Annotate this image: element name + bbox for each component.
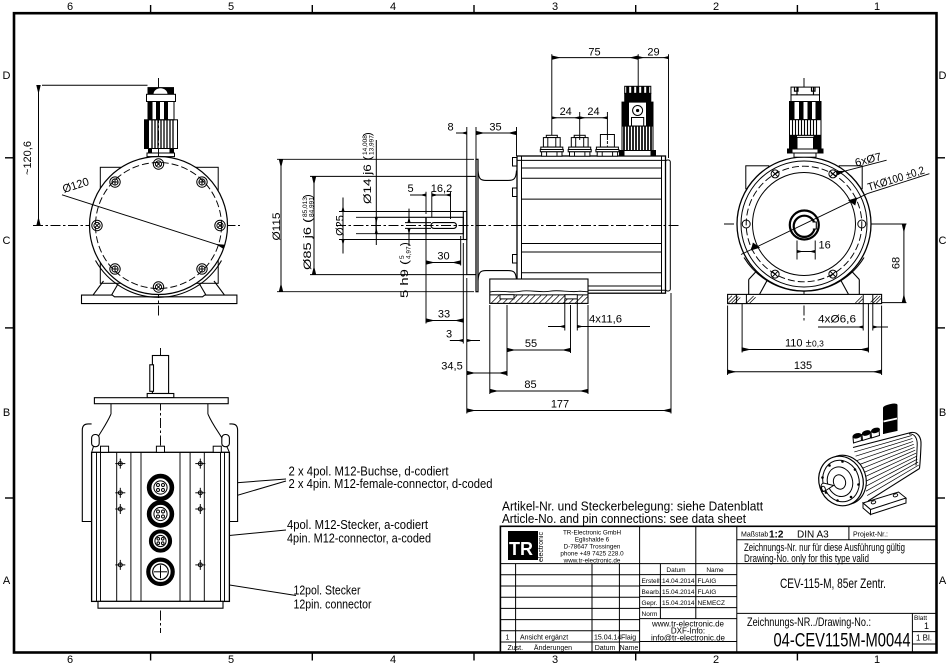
feet plates [82, 424, 237, 522]
svg-text:8: 8 [447, 122, 453, 134]
flange discs [815, 449, 872, 510]
svg-text:D-78647 Trossingen: D-78647 Trossingen [564, 544, 621, 551]
keyway on shaft [813, 222, 817, 229]
svg-text:~120,6: ~120,6 [22, 141, 34, 175]
bottom heavy rim arc [96, 261, 222, 298]
feet [82, 281, 237, 304]
svg-text:1: 1 [506, 635, 510, 642]
svg-text:4x11,6: 4x11,6 [589, 314, 622, 326]
svg-text:A: A [939, 575, 947, 587]
dim 135 [728, 306, 882, 376]
svg-text:84,991: 84,991 [309, 197, 316, 217]
dim labels [407, 47, 659, 411]
svg-text:FLAIG: FLAIG [698, 589, 717, 596]
revision rows [500, 574, 639, 576]
center line horizontal [33, 225, 240, 227]
shaft circles [790, 211, 819, 240]
svg-text:Name: Name [620, 645, 639, 652]
svg-text:1: 1 [874, 654, 880, 666]
svg-text:D: D [3, 70, 11, 82]
horizontal centerline [336, 225, 680, 227]
revision table verticals [515, 564, 517, 653]
connector cylinder black [884, 404, 898, 434]
center lines [724, 78, 906, 322]
svg-text:1: 1 [924, 621, 929, 631]
svg-text:30: 30 [437, 251, 449, 263]
svg-text:C: C [939, 235, 947, 247]
svg-text:C: C [3, 235, 11, 247]
svg-text:Erstellt: Erstellt [642, 578, 662, 585]
svg-text:34,5: 34,5 [441, 361, 462, 373]
main circle white fill [90, 157, 228, 295]
feet [728, 270, 882, 304]
svg-text:15.04.2014: 15.04.2014 [662, 589, 695, 596]
svg-text:4pin. M12-connector, a-coded: 4pin. M12-connector, a-coded [287, 531, 431, 546]
6xO7 leader [837, 160, 886, 173]
TK leader through center [741, 194, 868, 255]
svg-text:15.04.14: 15.04.14 [594, 635, 621, 642]
datum/name table [642, 567, 725, 618]
svg-text:04-CEV115M-M0044: 04-CEV115M-M0044 [774, 631, 911, 652]
svg-text:5: 5 [228, 1, 234, 13]
svg-text:electronic: electronic [538, 532, 545, 562]
svg-text:1: 1 [874, 1, 880, 13]
border zone ticks left [5, 157, 14, 159]
company block [560, 530, 624, 565]
dim ~120,6 [39, 85, 148, 225]
svg-text:DIN A3: DIN A3 [797, 530, 829, 541]
border zone ticks bottom [150, 653, 152, 661]
center line [160, 348, 162, 633]
svg-text:2: 2 [713, 654, 719, 666]
svg-text:14.04.2014: 14.04.2014 [662, 578, 695, 585]
svg-text:16: 16 [819, 240, 831, 252]
svg-text:29: 29 [647, 47, 659, 59]
svg-text:33: 33 [438, 309, 450, 321]
main circles [737, 157, 871, 291]
dim 68 [874, 224, 907, 303]
svg-text:Ø115: Ø115 [271, 213, 283, 241]
border zone ticks right [937, 157, 946, 159]
waist profile [478, 171, 517, 181]
svg-text:Datum: Datum [666, 567, 685, 574]
svg-text:110 ±: 110 ± [785, 338, 812, 350]
svg-text:D: D [939, 70, 947, 82]
svg-text:NEMECZ: NEMECZ [698, 600, 725, 607]
motor body outline [853, 433, 911, 448]
connector (encoder) on top of view1 [145, 87, 178, 157]
extension lines horizontal (diameters) [277, 159, 474, 291]
dashed pitch circle [96, 163, 222, 289]
svg-text:Änderungen: Änderungen [534, 644, 572, 652]
svg-text:Gepr.: Gepr. [642, 600, 658, 607]
dim diag Ø120 [62, 195, 224, 247]
svg-text:Article-No. and pin connection: Article-No. and pin connections: see dat… [502, 511, 746, 526]
encoder connector on body [620, 86, 656, 156]
slot notches [500, 295, 514, 299]
connectors [148, 476, 172, 584]
svg-text:phone +49 7425 228.0: phone +49 7425 228.0 [560, 551, 624, 558]
svg-text:5: 5 [407, 183, 413, 195]
bottom plate [98, 601, 223, 608]
dim 16 keyway [797, 241, 815, 260]
8 cover screws [92, 159, 225, 292]
screw cross marks [115, 459, 205, 570]
svg-text:Projekt-Nr.:: Projekt-Nr.: [853, 532, 888, 539]
svg-text:Ansicht ergänzt: Ansicht ergänzt [520, 635, 568, 642]
svg-text:16,2: 16,2 [431, 183, 452, 195]
svg-text:Ø25: Ø25 [335, 215, 347, 236]
dim 110 [742, 304, 868, 353]
foot plate (sectioned) [490, 279, 588, 303]
svg-text:Zust.: Zust. [508, 645, 524, 652]
svg-text:): ) [362, 132, 374, 136]
svg-text:Zeichnungs-NR../Drawing-No.:: Zeichnungs-NR../Drawing-No.: [747, 615, 871, 629]
hatch blocks on feet [728, 296, 882, 304]
flange corner squares [100, 167, 218, 283]
flange disc [94, 398, 228, 404]
dia dim lines [281, 140, 409, 292]
svg-text:24: 24 [587, 106, 599, 118]
svg-text:CEV-115-M, 85er Zentr.: CEV-115-M, 85er Zentr. [780, 575, 886, 591]
svg-text:2 x 4pin. M12-female-connector: 2 x 4pin. M12-female-connector, d-coded [289, 476, 493, 491]
svg-text:Norm: Norm [642, 611, 658, 618]
svg-text:12pin. connector: 12pin. connector [294, 597, 373, 612]
svg-text:68: 68 [891, 257, 903, 269]
logo cell [500, 563, 639, 565]
svg-text:TR: TR [509, 539, 533, 559]
foot plate [863, 492, 906, 510]
right part [736, 526, 738, 652]
svg-text:3: 3 [552, 1, 558, 13]
svg-text:0,3: 0,3 [812, 339, 824, 349]
logo [508, 531, 545, 562]
body rib lines [97, 452, 225, 601]
svg-text:135: 135 [794, 360, 812, 372]
svg-text:4: 4 [390, 1, 396, 13]
connector top view3 [788, 87, 824, 157]
svg-text:Drawing-No. only for this type: Drawing-No. only for this type valid [744, 553, 869, 565]
svg-text:Datum: Datum [595, 645, 616, 652]
svg-text:4xØ6,6: 4xØ6,6 [818, 314, 856, 326]
svg-text:Ø14 j6 (: Ø14 j6 ( [362, 156, 374, 204]
svg-text:TR-Electronic GmbH: TR-Electronic GmbH [563, 530, 622, 537]
svg-text:): ) [399, 242, 411, 246]
svg-text:Eglishalde 6: Eglishalde 6 [575, 537, 610, 544]
svg-text:4: 4 [390, 654, 396, 666]
svg-text:75: 75 [588, 47, 600, 59]
6 bolt holes [742, 170, 866, 278]
small connectors on top [852, 427, 880, 443]
svg-text:85: 85 [524, 379, 536, 391]
connector 3 square type [596, 135, 619, 157]
svg-text:12pol. Stecker: 12pol. Stecker [294, 583, 362, 598]
end cap [666, 160, 671, 291]
svg-text:Maßstab: Maßstab [741, 532, 768, 539]
svg-text:B: B [939, 407, 946, 419]
svg-text:6: 6 [67, 1, 73, 13]
dim 4xO6,6 [863, 304, 873, 331]
outer housing circle [90, 157, 228, 295]
svg-text:www.tr-electronic.de: www.tr-electronic.de [563, 558, 621, 565]
shaft [821, 483, 834, 491]
neck and bell [92, 404, 230, 453]
svg-text:15.04.2014: 15.04.2014 [662, 600, 695, 607]
middle column cells [695, 526, 697, 563]
svg-text:): ) [302, 194, 314, 198]
center line vertical [33, 78, 240, 316]
motor body [513, 156, 671, 294]
shaft [376, 159, 517, 291]
title block texts [502, 499, 932, 653]
svg-text:5 h9 (: 5 h9 ( [399, 260, 411, 298]
svg-text:1 Bl.: 1 Bl. [916, 634, 932, 643]
svg-text:5: 5 [228, 654, 234, 666]
small tabs on body front face [513, 158, 518, 294]
flange corner squares top [746, 166, 862, 189]
svg-text:35: 35 [489, 122, 501, 134]
svg-text:A: A [3, 575, 11, 587]
body white fill [852, 432, 921, 502]
body [92, 452, 230, 601]
svg-text:2: 2 [713, 1, 719, 13]
flange screw dots [821, 460, 860, 502]
top tabs [101, 446, 222, 452]
svg-text:1:2: 1:2 [769, 530, 784, 541]
svg-text:Name: Name [706, 567, 724, 574]
body ribs [854, 436, 919, 496]
shaft [147, 356, 174, 398]
svg-text:3: 3 [552, 654, 558, 666]
svg-text:13,997: 13,997 [369, 135, 376, 155]
vertical dim extension lines [426, 54, 671, 413]
svg-text:55: 55 [525, 338, 537, 350]
svg-text:3: 3 [446, 329, 452, 341]
svg-text:FLAIG: FLAIG [698, 578, 717, 585]
svg-text:info@tr-electronic.de: info@tr-electronic.de [651, 634, 725, 643]
svg-text:Flaig: Flaig [621, 635, 636, 642]
svg-text:Ø85 j6 (: Ø85 j6 ( [302, 218, 314, 270]
revision rows text [506, 635, 639, 653]
svg-text:24: 24 [560, 106, 572, 118]
svg-text:B: B [3, 407, 10, 419]
svg-text:4,97: 4,97 [406, 246, 413, 259]
svg-text:Bearb.: Bearb. [642, 589, 661, 596]
flange face [476, 159, 478, 291]
connectors on body top [540, 135, 563, 156]
svg-text:6: 6 [67, 654, 73, 666]
svg-text:177: 177 [551, 399, 569, 411]
dimension lines with arrows [410, 58, 671, 411]
right cells texts [741, 530, 932, 652]
